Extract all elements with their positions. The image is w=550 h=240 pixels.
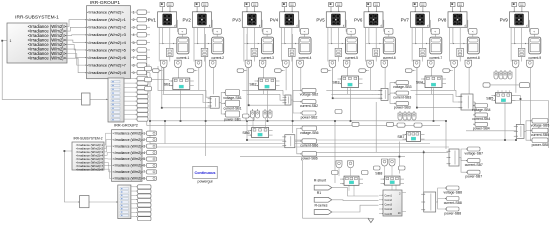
- svg-text:power-SB5: power-SB5: [532, 143, 549, 147]
- svg-text:1: 1: [132, 11, 134, 15]
- svg-text:<Irradiance (W/m2)>1: <Irradiance (W/m2)>1: [87, 17, 127, 22]
- svg-text:4: 4: [132, 33, 134, 37]
- svg-text:current-4: current-4: [299, 56, 312, 60]
- svg-text:PV9: PV9: [500, 18, 509, 23]
- svg-text:<Irradiance (W/m2)>2: <Irradiance (W/m2)>2: [113, 138, 145, 142]
- svg-text:<Irradiance (W/m2)>: <Irradiance (W/m2)>: [28, 56, 67, 61]
- svg-text:SB8: SB8: [375, 172, 382, 176]
- svg-text:Conn3: Conn3: [385, 204, 393, 207]
- svg-text:3: 3: [132, 26, 134, 30]
- svg-text:current-SB2: current-SB2: [300, 104, 318, 108]
- svg-text:<Irradiance (W/m2)>3: <Irradiance (W/m2)>3: [87, 32, 127, 37]
- svg-text:7: 7: [132, 56, 134, 60]
- svg-text:current-9: current-9: [528, 56, 541, 60]
- svg-text:<Irradiance (W/m2)>8: <Irradiance (W/m2)>8: [87, 70, 127, 75]
- svg-text:<Irradiance (W/m2)>1: <Irradiance (W/m2)>1: [113, 131, 145, 135]
- svg-text:<Irradiance (W/m2)>8: <Irradiance (W/m2)>8: [113, 177, 145, 181]
- svg-text:current-8: current-8: [467, 56, 480, 60]
- svg-text:SB5: SB5: [486, 96, 493, 100]
- svg-text:current-SB8: current-SB8: [444, 201, 462, 205]
- svg-text:<: <: [533, 30, 535, 34]
- svg-text:<: <: [304, 30, 306, 34]
- svg-text:2: 2: [132, 18, 134, 22]
- svg-text:PV3: PV3: [232, 18, 241, 23]
- svg-text:<Irradiance (W/m2)>5: <Irradiance (W/m2)>5: [87, 47, 127, 52]
- svg-text:SB6: SB6: [242, 131, 249, 135]
- svg-text:9: 9: [132, 71, 134, 75]
- svg-text:current-SB4: current-SB4: [472, 117, 490, 121]
- svg-text:current-SB1: current-SB1: [223, 107, 241, 111]
- svg-text:current-2: current-2: [211, 56, 224, 60]
- svg-text:voltage-SB8: voltage-SB8: [444, 190, 463, 194]
- svg-text:Conn4: Conn4: [385, 208, 393, 211]
- svg-text:R-shunt: R-shunt: [314, 179, 326, 183]
- svg-text:<Irradiance (W/m2)>5: <Irradiance (W/m2)>5: [113, 157, 145, 161]
- svg-text:power-SB7: power-SB7: [465, 175, 482, 179]
- svg-text:<: <: [350, 30, 352, 34]
- svg-text:current-5: current-5: [345, 56, 358, 60]
- svg-text:SB7: SB7: [397, 135, 404, 139]
- svg-text:current-7: current-7: [429, 56, 442, 60]
- svg-text:voltage-SB3: voltage-SB3: [393, 85, 412, 89]
- svg-text:1: 1: [10, 39, 12, 43]
- svg-text:voltage-SB5: voltage-SB5: [531, 123, 550, 127]
- svg-text:current-3: current-3: [261, 56, 274, 60]
- svg-text:<: <: [388, 30, 390, 34]
- svg-text:current-SB7: current-SB7: [465, 163, 483, 167]
- svg-text:PV4: PV4: [270, 18, 279, 23]
- svg-text:<Irradiance (W/m2)>7: <Irradiance (W/m2)>7: [113, 170, 145, 174]
- svg-text:<: <: [472, 30, 474, 34]
- svg-text:<: <: [266, 30, 268, 34]
- svg-text:<: <: [182, 30, 184, 34]
- svg-text:<Irradiance (W/m2)>6: <Irradiance (W/m2)>6: [113, 164, 145, 168]
- svg-text:<Irradiance (W/m2)>2: <Irradiance (W/m2)>2: [87, 25, 127, 30]
- svg-text:<Irradiance (W/m2)>6: <Irradiance (W/m2)>6: [87, 55, 127, 60]
- svg-text:<Irradiance (W/m2)>: <Irradiance (W/m2)>: [87, 10, 124, 15]
- svg-text:current-6: current-6: [383, 56, 396, 60]
- svg-text:PV6: PV6: [354, 18, 363, 23]
- svg-text:<Irradiance (W/m2)>4: <Irradiance (W/m2)>4: [87, 40, 127, 45]
- svg-text:PV2: PV2: [182, 18, 191, 23]
- svg-text:powergui: powergui: [198, 179, 213, 183]
- svg-text:PV1: PV1: [148, 18, 157, 23]
- svg-text:current-SB5: current-SB5: [531, 133, 549, 137]
- svg-text:Conn1: Conn1: [385, 194, 393, 197]
- svg-text:IRR-SUBSYSTEM-1: IRR-SUBSYSTEM-1: [15, 15, 59, 21]
- svg-text:current-SB3: current-SB3: [393, 95, 411, 99]
- svg-text:R1: R1: [317, 191, 322, 195]
- svg-text:voltage-SB2: voltage-SB2: [300, 93, 319, 97]
- svg-text:R-series: R-series: [314, 204, 327, 208]
- svg-text:IRR-GROUP1: IRR-GROUP1: [90, 0, 120, 6]
- svg-text:8: 8: [132, 63, 134, 67]
- svg-text:power-SB1: power-SB1: [224, 117, 241, 121]
- svg-text:5: 5: [132, 41, 134, 45]
- svg-text:Conn2: Conn2: [385, 199, 393, 202]
- svg-text:IRR-GROUP2: IRR-GROUP2: [114, 123, 138, 127]
- svg-text:power-SB2: power-SB2: [301, 115, 318, 119]
- svg-text:power-SB6: power-SB6: [301, 156, 318, 160]
- svg-text:<Irradiance (W/m2)>4: <Irradiance (W/m2)>4: [113, 151, 145, 155]
- svg-text:power-SB4: power-SB4: [473, 127, 490, 131]
- svg-text:current-SB6: current-SB6: [300, 144, 318, 148]
- svg-text:voltage-SB4: voltage-SB4: [472, 108, 491, 112]
- svg-text:current-1: current-1: [177, 56, 190, 60]
- svg-text:6: 6: [132, 48, 134, 52]
- svg-text:PV7: PV7: [401, 18, 410, 23]
- svg-text:<Irradiance (W/m2)>3: <Irradiance (W/m2)>3: [113, 144, 145, 148]
- svg-text:IRR-SUBSYSTEM-2: IRR-SUBSYSTEM-2: [73, 137, 102, 141]
- svg-text:Conn5: Conn5: [385, 213, 393, 216]
- svg-text:PV5: PV5: [316, 18, 325, 23]
- svg-text:voltage-SB6: voltage-SB6: [300, 131, 319, 135]
- svg-text:<: <: [434, 30, 436, 34]
- svg-text:voltage-SB7: voltage-SB7: [465, 151, 484, 155]
- svg-text:voltage-SB1: voltage-SB1: [223, 96, 242, 100]
- svg-text:Continuous: Continuous: [194, 171, 215, 175]
- svg-text:power-SB8: power-SB8: [444, 211, 461, 215]
- svg-text:power-SB3: power-SB3: [394, 106, 411, 110]
- svg-text:PV8: PV8: [438, 18, 447, 23]
- svg-text:<Irradiance (W/m2)>8: <Irradiance (W/m2)>8: [76, 167, 104, 171]
- svg-text:<: <: [216, 30, 218, 34]
- svg-text:<Irradiance (W/m2)>7: <Irradiance (W/m2)>7: [87, 62, 127, 67]
